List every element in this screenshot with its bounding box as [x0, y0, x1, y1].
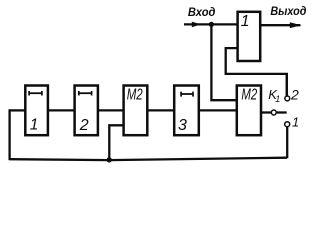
- wire output line: [260, 24, 300, 26]
- node bus junction dot: [107, 157, 112, 162]
- box M2b: [237, 86, 261, 136]
- svg-text:3: 3: [178, 117, 187, 134]
- svg-text:2: 2: [79, 117, 89, 134]
- svg-text:М2: М2: [127, 87, 143, 104]
- wire contact1 vertical down to bus: [286, 127, 288, 158]
- svg-text:2: 2: [290, 87, 299, 103]
- wire P2 from top box left side to contact 2: [226, 48, 287, 96]
- node input junction dot: [209, 22, 214, 27]
- wire box3 to M2b: [199, 109, 237, 111]
- wire input line: [184, 23, 238, 25]
- svg-text:Вход: Вход: [188, 5, 216, 19]
- wire left bus vertical: [8, 109, 10, 160]
- wire contact2 vertical: [286, 74, 288, 96]
- wire bus to box1: [10, 109, 26, 111]
- box 2 bottom row: [75, 86, 98, 136]
- amplifier U1 top box: [238, 12, 261, 61]
- head bar symbol in box 3: [181, 93, 194, 95]
- wire P1 from input junction down to M2b left side: [211, 24, 236, 100]
- switch wiper circle: [271, 110, 276, 115]
- box 3 bottom row: [174, 86, 199, 136]
- wire M2a to box3: [147, 109, 174, 111]
- wire M2b to switch wiper: [261, 111, 271, 113]
- box 1 bottom row: [25, 86, 48, 136]
- svg-text:1: 1: [292, 115, 299, 130]
- contact 1 circle: [285, 122, 290, 127]
- switch arm: [277, 111, 287, 113]
- svg-text:1: 1: [30, 117, 39, 134]
- svg-text:М2: М2: [241, 86, 257, 103]
- wire box1 to box2: [48, 109, 75, 111]
- head bar symbol in box 2: [78, 92, 92, 94]
- wire bottom bus: [10, 158, 288, 160]
- box M2a: [124, 86, 148, 136]
- output arrowhead: [290, 22, 302, 28]
- wire riser from bus dot to M2a left side: [109, 125, 123, 160]
- wire box2 to M2a: [98, 109, 124, 111]
- svg-text:1: 1: [241, 13, 250, 30]
- input arrowhead: [192, 22, 201, 28]
- svg-text:1: 1: [275, 94, 280, 104]
- svg-text:Выход: Выход: [270, 4, 306, 18]
- head bar symbol in box 1: [29, 92, 43, 94]
- contact 2 circle: [285, 96, 290, 101]
